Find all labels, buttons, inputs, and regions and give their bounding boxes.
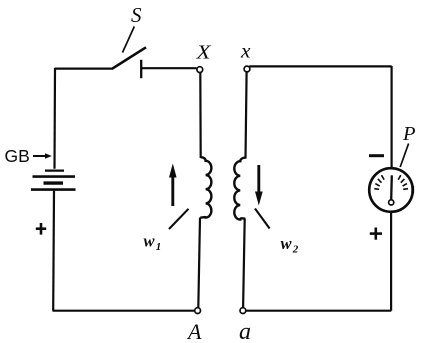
current arrow up (w1) — [171, 176, 174, 206]
label + (battery positive) — [36, 223, 46, 235]
switch S blade — [112, 47, 146, 69]
battery GB plate 1 (short) — [45, 170, 64, 172]
svg-text:P: P — [402, 123, 416, 145]
wire bottom-left horizontal — [53, 310, 195, 312]
node A terminal — [195, 308, 201, 314]
svg-text:x: x — [240, 40, 251, 62]
galvanometer right terminal mark — [411, 186, 414, 194]
switch S leader line — [123, 27, 135, 53]
wire top-right horizontal — [249, 65, 391, 67]
current arrow down (w2) — [257, 165, 260, 193]
label + (galvanometer positive) — [370, 228, 382, 240]
node X terminal — [197, 67, 203, 73]
wire secondary bottom lead — [243, 219, 245, 308]
galvanometer pivot — [389, 200, 394, 205]
wire secondary top lead — [246, 72, 247, 159]
svg-text:a: a — [239, 319, 251, 343]
svg-text:S: S — [131, 3, 142, 27]
GB arrow — [33, 155, 46, 157]
battery GB plate 3 (short thick) — [44, 181, 64, 184]
svg-text:A: A — [186, 319, 202, 343]
wire switch contact to node X — [142, 67, 197, 69]
galvanometer P body — [369, 168, 413, 212]
w1 leader line — [169, 209, 189, 229]
galvanometer needle — [390, 175, 393, 199]
svg-text:w: w — [281, 234, 293, 253]
wire right vertical upper — [391, 66, 393, 168]
wire right vertical lower — [390, 212, 392, 310]
inductor w2 (secondary winding) — [234, 158, 245, 220]
wire left vertical lower — [52, 191, 55, 311]
wire primary bottom lead — [198, 218, 200, 308]
w2 leader line — [255, 209, 270, 229]
svg-text:1: 1 — [156, 241, 162, 253]
svg-text:GB: GB — [5, 146, 30, 166]
switch S fixed contact — [140, 60, 142, 78]
P leader line — [400, 144, 408, 168]
label minus (galvanometer negative) — [369, 154, 384, 157]
battery GB plate 4 (long) — [31, 188, 76, 191]
svg-text:w: w — [144, 232, 156, 251]
svg-text:X: X — [195, 41, 211, 63]
galvanometer scale ticks left — [374, 175, 384, 189]
wire bottom-right horizontal — [246, 310, 391, 312]
inductor w1 (primary winding) — [200, 157, 211, 217]
wire left vertical upper — [53, 68, 56, 169]
node a terminal — [240, 308, 246, 314]
node x terminal — [244, 66, 250, 72]
galvanometer scale ticks right — [398, 175, 408, 189]
battery GB plate 2 (long) — [33, 175, 76, 178]
svg-text:2: 2 — [292, 244, 299, 256]
wire top-left horizontal — [55, 67, 113, 69]
wire primary top lead — [199, 72, 202, 158]
